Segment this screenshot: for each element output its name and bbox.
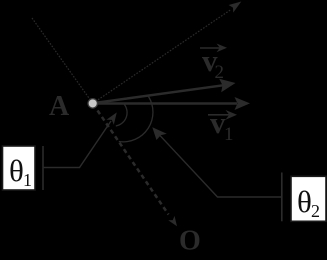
long thin arrow from A to upper right (98, 10, 231, 100)
v1 label vector arrow (208, 114, 229, 116)
svg-text:1: 1 (224, 124, 234, 145)
theta-2 leader vertical bar (281, 173, 283, 222)
theta-1 leader vertical bar (42, 146, 44, 190)
theta-1 label box (3, 146, 36, 190)
arrowhead of long thin arrow (229, 2, 242, 13)
theta-1 leader line (43, 121, 111, 168)
svg-text:1: 1 (23, 170, 32, 190)
vector v1 arrowhead (235, 97, 251, 110)
svg-text:θ: θ (297, 184, 312, 219)
vector v2 arrowhead (219, 79, 235, 93)
theta-1 leader arrowhead (106, 112, 116, 124)
theta-2 leader line (157, 132, 282, 197)
theta-2 leader arrowhead (152, 127, 167, 140)
incident line from top-left to point A (32, 18, 90, 100)
small angle arc (theta-1) between v1 and line AO (116, 103, 127, 126)
svg-text:2: 2 (311, 201, 320, 221)
large angle arc (theta-2) between v2 and line AO (119, 97, 153, 142)
vector v2 shaft (98, 85, 223, 102)
svg-text:O: O (179, 226, 201, 257)
vector v1 shaft (98, 102, 237, 105)
theta-2 label box (291, 176, 326, 221)
point A circle (88, 99, 97, 108)
svg-text:θ: θ (9, 153, 24, 188)
dashed line A to O (98, 111, 169, 215)
svg-text:2: 2 (215, 62, 225, 83)
arrowhead at O end of dashed line (168, 216, 177, 226)
svg-text:A: A (49, 91, 70, 122)
v2 label vector arrow (200, 47, 220, 49)
